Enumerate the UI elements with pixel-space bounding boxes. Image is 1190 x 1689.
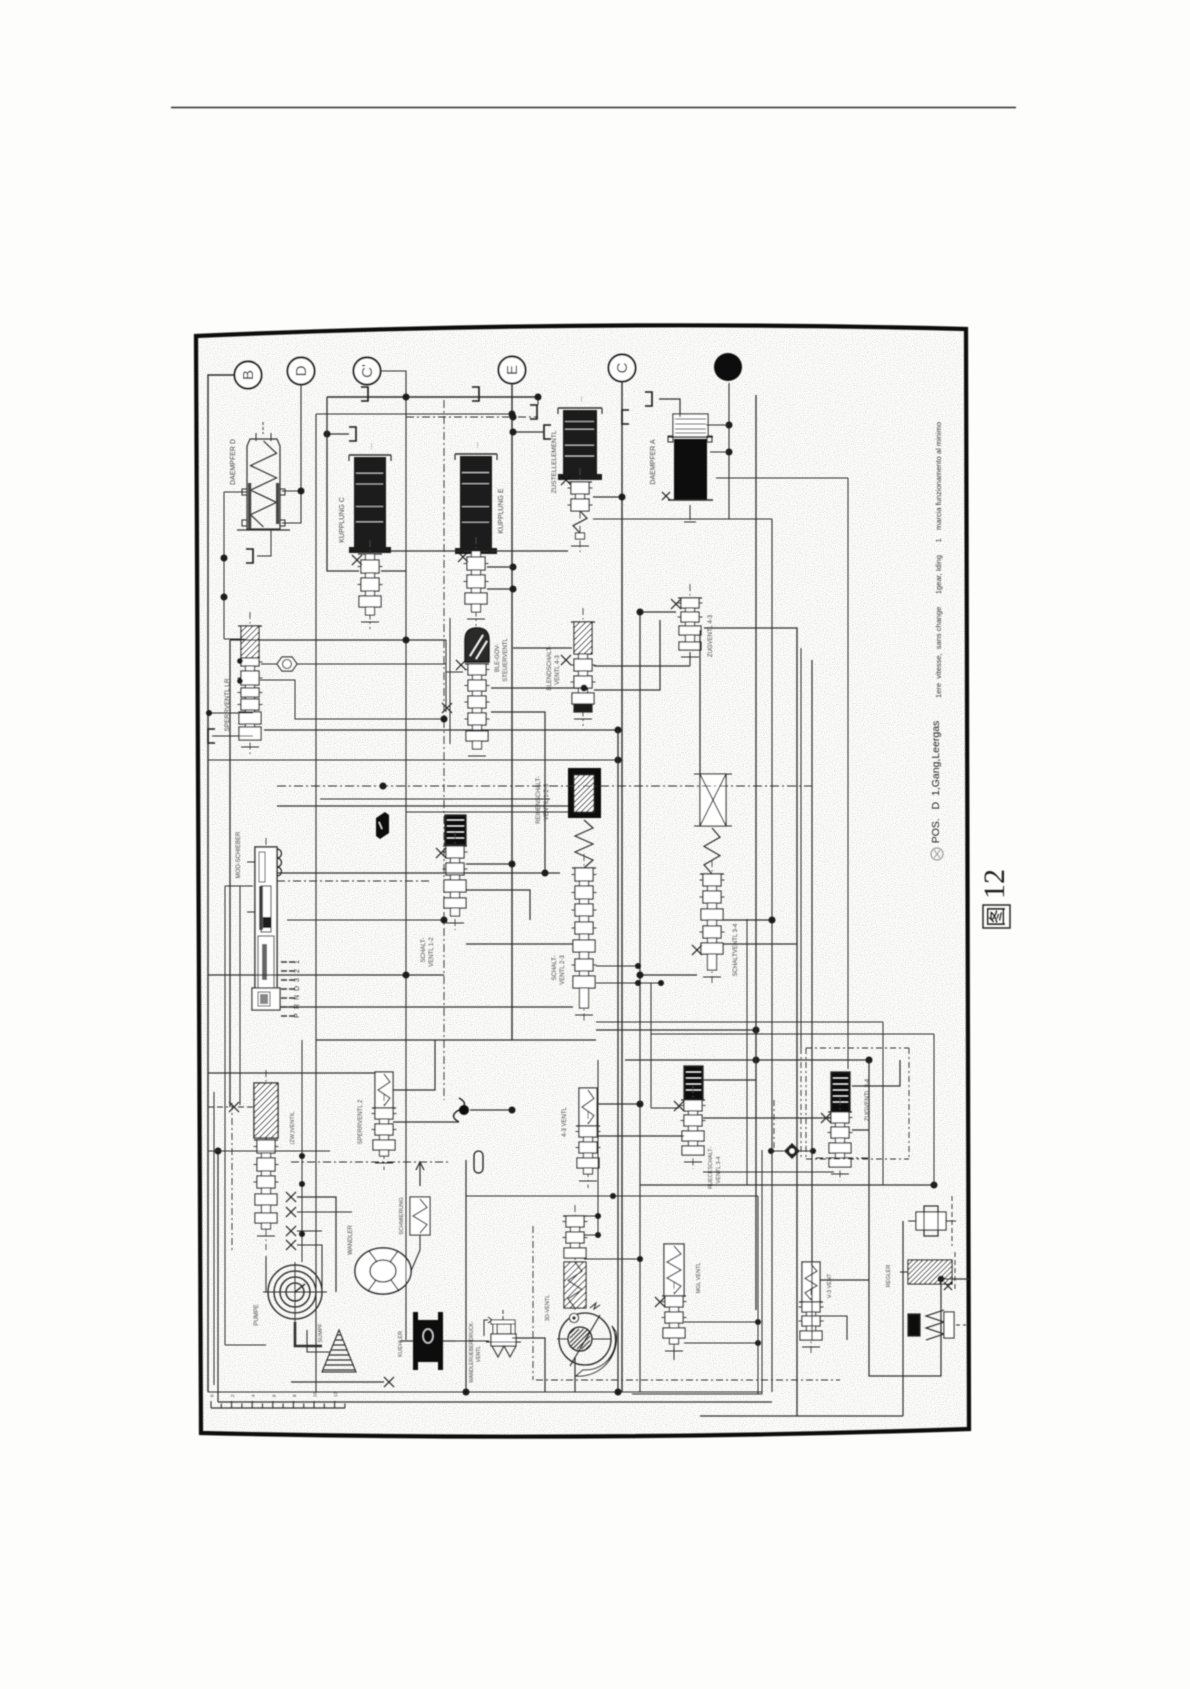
svg-text:WANDLERUEBERDRUCK-: WANDLERUEBERDRUCK- bbox=[469, 1321, 475, 1383]
wire bracket left of clutch C bbox=[349, 427, 356, 441]
Zustellelement spool with spring bbox=[579, 468, 581, 553]
svg-text:VENTL 4-3: VENTL 4-3 bbox=[555, 655, 561, 685]
svg-text:MGL VENTL: MGL VENTL bbox=[696, 1263, 702, 1294]
wire A drop bbox=[729, 383, 772, 519]
valve 3D-VENTIL spool bbox=[574, 1205, 576, 1310]
wire C trunk bbox=[621, 382, 623, 1392]
gear position icon bbox=[931, 848, 943, 860]
fourth row wiring bbox=[393, 1040, 435, 1090]
svg-text:12: 12 bbox=[978, 869, 1011, 899]
node B bbox=[235, 362, 262, 389]
sump SUMPF hatched triangle bbox=[322, 1330, 356, 1372]
wire B trunk left bbox=[208, 375, 234, 1392]
svg-text:C: C bbox=[614, 362, 631, 373]
bus top horizontal 397 bbox=[327, 396, 538, 398]
left column verticals bbox=[213, 1092, 215, 1385]
svg-text:VENTL 1-2: VENTL 1-2 bbox=[429, 937, 435, 967]
spring of REIHENSCHALTVENTIL bbox=[575, 820, 593, 868]
valve RUECKSCHALTVENTIL 3-4 striped head bbox=[684, 1066, 703, 1100]
svg-text:STEUERVENTL: STEUERVENTL bbox=[503, 638, 509, 682]
governor REGLER screw hatched bbox=[908, 1260, 952, 1284]
valve RUECKSCHALTVENTIL 3-4 spool bbox=[692, 1086, 694, 1169]
valve SCHALTVENTIL 1-2 spool bbox=[454, 832, 456, 930]
svg-text:2: 2 bbox=[294, 969, 301, 973]
svg-text:SCHMIERUNG: SCHMIERUNG bbox=[399, 1197, 405, 1235]
schalt34 ports bbox=[723, 919, 772, 921]
clutch E cylinder bbox=[455, 453, 497, 455]
svg-text:MOD-SCHIEBER: MOD-SCHIEBER bbox=[236, 831, 242, 878]
bracket stubs top bbox=[361, 387, 368, 401]
valve BLENDSCHALTVENTIL 4-3 bbox=[582, 608, 584, 726]
dash horizontal 417 bbox=[406, 416, 538, 418]
valve SPERRVENTIL 2 bbox=[375, 1072, 393, 1108]
mid horizontals bbox=[208, 759, 618, 761]
damper D spring box bbox=[262, 422, 264, 434]
dashed box around ZUGVENTIL 3-4 bbox=[806, 1047, 909, 1049]
wire clutch C right port bbox=[381, 570, 406, 572]
valve 4-3 VENTIL bbox=[579, 1088, 597, 1126]
wire E circle down to clutch E port bbox=[510, 564, 517, 571]
top rule line bbox=[171, 107, 1016, 109]
valve WANDLERUEBERDRUCK bbox=[484, 1320, 488, 1336]
check ball hex bbox=[277, 657, 297, 671]
wire damper D to D trunk bbox=[224, 491, 247, 493]
svg-text:WANDLER: WANDLER bbox=[348, 1224, 354, 1254]
valve BLE-GOV STEUERVENTIL spool bbox=[465, 663, 489, 665]
zug 4-3 ports bbox=[640, 612, 676, 1030]
wire bracket A to cylinder bbox=[659, 399, 680, 417]
verticals mid right bbox=[755, 395, 757, 1310]
bracket left of C trunk bbox=[622, 410, 629, 424]
shuttle pills bbox=[454, 1098, 465, 1122]
svg-text:1ere vitesse, sans change: 1ere vitesse, sans change 1gear, Iding 1… bbox=[934, 422, 943, 698]
svg-text:P: P bbox=[294, 1013, 301, 1018]
svg-text:ZUGVENTL 3-4: ZUGVENTL 3-4 bbox=[865, 1078, 871, 1121]
svg-text:KUPPLUNG E: KUPPLUNG E bbox=[498, 488, 505, 533]
clutch C spool bbox=[369, 540, 371, 629]
svg-text:...: ... bbox=[577, 396, 584, 402]
wire y1196 bbox=[466, 1195, 758, 1197]
svg-text:(ZW.)VENTIL: (ZW.)VENTIL bbox=[290, 1112, 296, 1145]
shuttle valve dark bbox=[376, 812, 389, 839]
wire 316 is D-col trunk misplaced; correction cover bbox=[277, 872, 560, 874]
valve ZUGVENTIL 3-4 striped head bbox=[831, 1072, 850, 1112]
bottom area wiring bbox=[218, 1401, 772, 1403]
wire damper A to right trunk bbox=[716, 477, 848, 479]
wire E trunk bbox=[511, 384, 513, 1040]
valve SPERRVENTIL LR bbox=[249, 612, 251, 754]
node E bbox=[499, 357, 526, 384]
svg-text:SUMPF: SUMPF bbox=[318, 1323, 324, 1343]
bracket near E-Zustell bbox=[530, 405, 537, 419]
wire clutch C left port down bbox=[327, 397, 359, 571]
svg-text:ZUSTELLELEMENTL: ZUSTELLELEMENTL bbox=[551, 430, 558, 493]
valve SCHALTVENTIL 3-4 head bbox=[700, 774, 726, 826]
valve SCHALTVENTIL 3-4 spool bbox=[711, 860, 713, 984]
left distribution valve hatched bbox=[265, 1070, 267, 1250]
dash stub x774 bbox=[773, 1100, 775, 1152]
dash trunk from C' bracket bbox=[443, 400, 445, 1100]
governor REGLER upper valve bbox=[916, 1212, 946, 1230]
ble-gov ports bbox=[446, 671, 463, 673]
wire zustell ports bbox=[593, 496, 622, 498]
governor REGLER lower spring valve bbox=[908, 1314, 920, 1336]
svg-text:VENTL 2-3: VENTL 2-3 bbox=[560, 955, 566, 985]
svg-text:REGLER: REGLER bbox=[886, 1265, 892, 1288]
wire cap bars join 554 bbox=[391, 550, 461, 552]
blend 4-3 ports bbox=[513, 647, 572, 649]
pump PUMPE bbox=[268, 1265, 322, 1319]
manual valve MOD-SCHIEBER bbox=[265, 838, 267, 1008]
cooler KUEHLER bbox=[413, 1312, 418, 1370]
valve SCHALTVENTIL 3-4 spring bbox=[704, 828, 720, 874]
svg-text:RUECKSCHALT-: RUECKSCHALT- bbox=[708, 1147, 714, 1189]
svg-text:SCHALTVENTL 3-4: SCHALTVENTL 3-4 bbox=[733, 923, 739, 976]
svg-text:BLENDSCHALT-: BLENDSCHALT- bbox=[547, 646, 553, 691]
wire trunk x747 bbox=[746, 919, 748, 1185]
svg-text:D: D bbox=[293, 365, 310, 376]
node C' bbox=[354, 358, 381, 385]
svg-text:B: B bbox=[240, 370, 257, 380]
wire sperrLR bottom bbox=[212, 735, 253, 737]
wire C' to vertical trunk bbox=[380, 371, 406, 1340]
svg-text:ZUGVENTL 4-3: ZUGVENTL 4-3 bbox=[708, 614, 714, 657]
svg-text:SCHALT-: SCHALT- bbox=[421, 938, 427, 963]
3D-VENTIL spring hatched bbox=[564, 1262, 586, 1308]
clutch E spool bbox=[475, 537, 477, 626]
node A (filled) bbox=[714, 353, 742, 381]
svg-text:3: 3 bbox=[294, 978, 301, 982]
svg-text:3D-VENTL: 3D-VENTL bbox=[545, 1295, 551, 1322]
clutch C cylinder bbox=[349, 454, 391, 456]
sperr LR ports bbox=[229, 640, 231, 1107]
svg-text:N: N bbox=[294, 995, 301, 1000]
manual valve position marks P R N D 3 2 1 bbox=[281, 1015, 287, 1017]
wire zug34 bottom port bbox=[703, 1171, 834, 1173]
scale ruler bbox=[211, 1407, 345, 1409]
node D bbox=[288, 358, 315, 385]
wire vertical x450 near BLE-GOV bbox=[449, 618, 451, 744]
svg-text:PUMPE: PUMPE bbox=[254, 1304, 260, 1325]
long horizontal 640 bbox=[230, 639, 446, 641]
X mark left of damper A bbox=[662, 492, 670, 500]
svg-text:REIHENSCHALT-: REIHENSCHALT- bbox=[536, 776, 542, 824]
lubrication spring SCHMIERUNG bbox=[416, 1162, 424, 1186]
svg-text:...: ... bbox=[473, 442, 480, 448]
valve SCHALTVENTIL 1-2 striped head bbox=[445, 815, 466, 845]
figure hanzi in box bbox=[983, 905, 1010, 928]
wires governor feed area bbox=[596, 965, 638, 967]
valve ZUGVENTIL 3-4 spool bbox=[839, 1098, 841, 1181]
valve REIHENSCHALT/SCHALT 2-3 spool bbox=[583, 854, 585, 1022]
svg-text:...: ... bbox=[367, 443, 374, 449]
svg-text:KUEHLER: KUEHLER bbox=[398, 1331, 404, 1357]
wire damper A ports bbox=[706, 424, 729, 426]
valve REIHENSCHALTVENTIL 1-2-3 black box bbox=[568, 768, 601, 818]
pump to sump pipe bbox=[295, 1322, 322, 1346]
svg-text:KUPPLUNG C: KUPPLUNG C bbox=[339, 497, 346, 543]
svg-text:1: 1 bbox=[294, 960, 301, 964]
wire from B trunk bottom to right bbox=[208, 1391, 762, 1393]
wire clutch E lower port bbox=[487, 588, 513, 590]
damper A cylinder bbox=[673, 414, 708, 437]
port sperr LR bottom bbox=[208, 712, 253, 714]
svg-text:BLE-GOV-: BLE-GOV- bbox=[495, 644, 501, 672]
svg-text:DAEMPFER D: DAEMPFER D bbox=[230, 439, 237, 485]
wires band y800 bbox=[320, 798, 550, 800]
svg-text:C': C' bbox=[359, 364, 376, 378]
svg-text:SPERRVENTL 2: SPERRVENTL 2 bbox=[358, 1099, 364, 1144]
3D-VENTIL rotor bbox=[559, 1313, 611, 1365]
torque converter WANDLER bbox=[355, 1248, 411, 1294]
valve V-3 VENT bbox=[802, 1262, 820, 1302]
valve BLE-GOV STEUERVENTIL dome bbox=[465, 628, 489, 662]
svg-text:V-3 VENT: V-3 VENT bbox=[827, 1273, 833, 1298]
wires 3D valve ports bbox=[597, 1060, 599, 1235]
bracket E bbox=[544, 425, 551, 439]
valve ZUGVENTIL 4-3 bbox=[689, 584, 691, 664]
valve MGL VENTIL bbox=[664, 1244, 684, 1296]
svg-text:图: 图 bbox=[986, 907, 1008, 927]
svg-text:POS. D 1,Gang,Leergas: POS. D 1,Gang,Leergas bbox=[930, 721, 942, 844]
left X stub bbox=[208, 1106, 228, 1108]
outer frame bbox=[196, 325, 969, 1436]
svg-text:DAEMPFER A: DAEMPFER A bbox=[650, 439, 657, 484]
node C bbox=[609, 355, 636, 382]
svg-text:4-3 VENTL: 4-3 VENTL bbox=[562, 1107, 568, 1137]
Zustellelement cylinder bbox=[558, 407, 602, 409]
svg-text:SCHALT-: SCHALT- bbox=[552, 956, 558, 981]
svg-text:VENTL: VENTL bbox=[476, 1346, 482, 1362]
wire D trunk bbox=[282, 385, 301, 523]
svg-text:VENTL 3-4: VENTL 3-4 bbox=[716, 1156, 722, 1183]
svg-text:E: E bbox=[504, 365, 521, 375]
check valve small dark bbox=[784, 1143, 800, 1159]
svg-text:D: D bbox=[294, 986, 301, 991]
